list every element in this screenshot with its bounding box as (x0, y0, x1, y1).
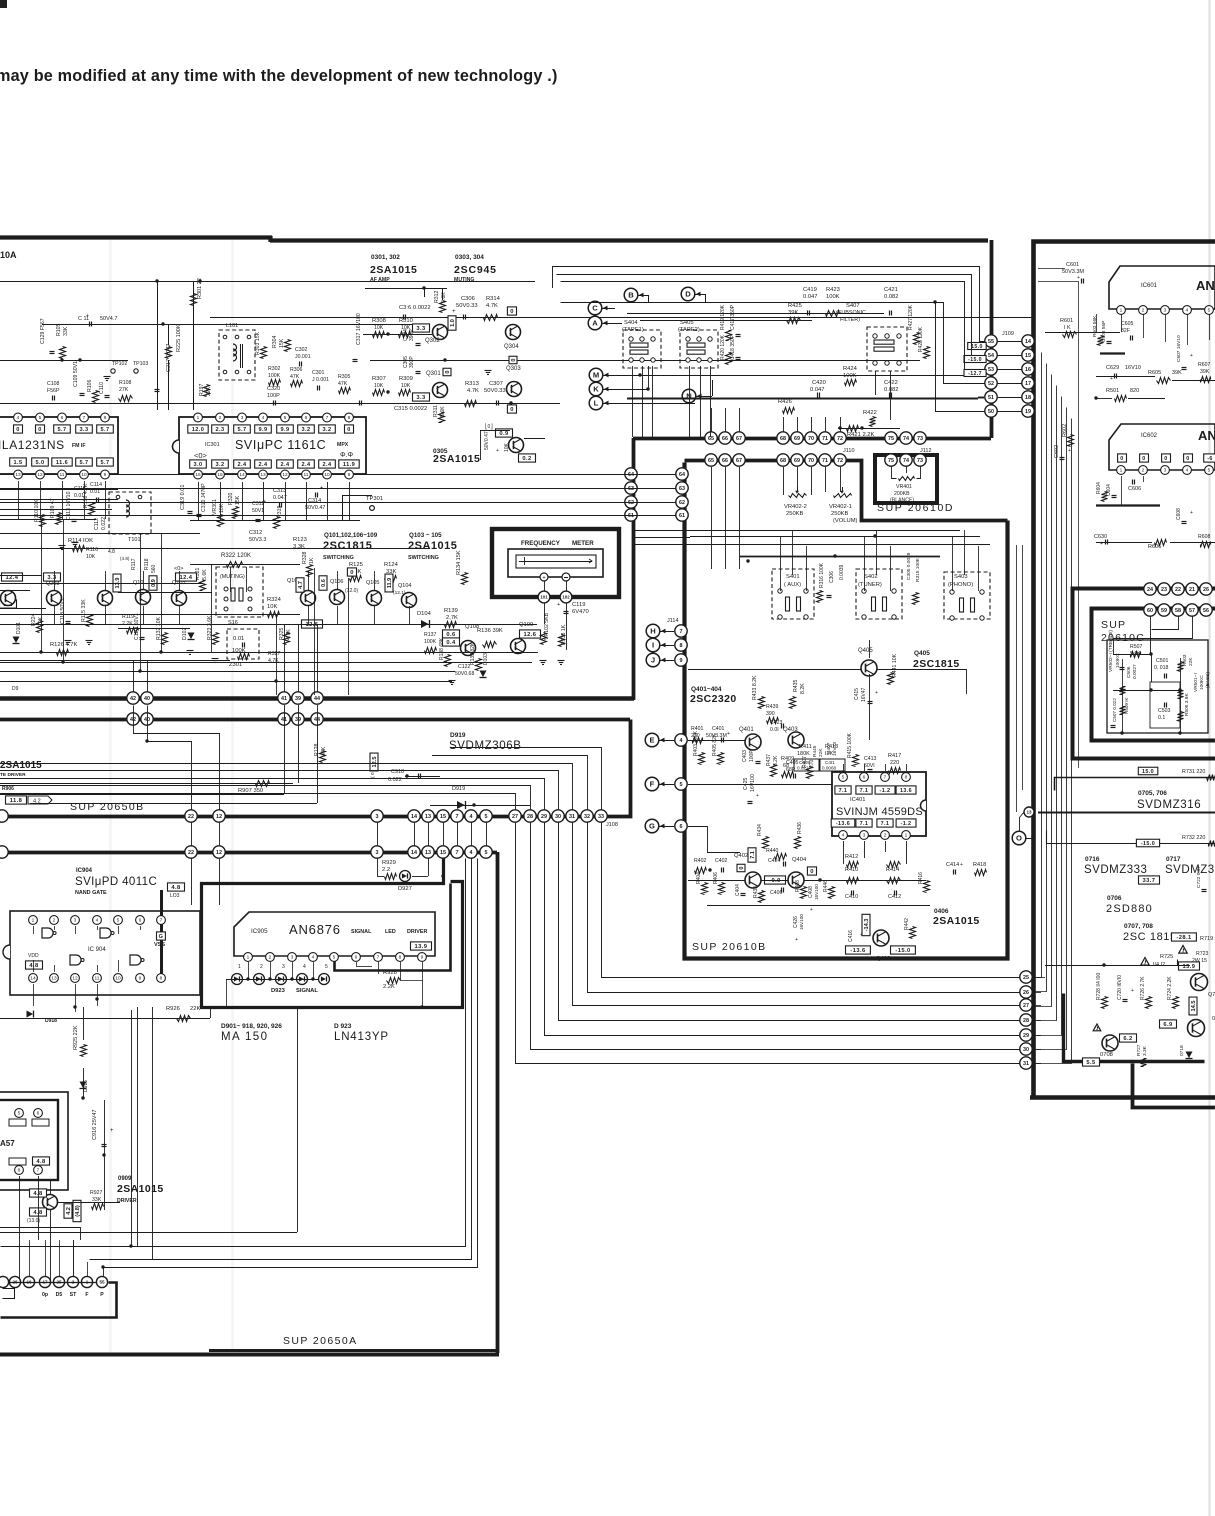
svg-text:1K: 1K (309, 557, 315, 564)
svg-text:I/4 I2: I/4 I2 (1153, 962, 1165, 968)
svg-text:R406: R406 (713, 872, 719, 884)
bottom connector circles (0, 1276, 9, 1287)
svg-text:+: + (810, 907, 813, 913)
svg-text:C403: C403 (742, 750, 748, 762)
svg-text:12: 12 (216, 850, 222, 856)
svg-text:39K: 39K (788, 310, 798, 316)
svg-text:R134 15K: R134 15K (456, 550, 462, 575)
svg-text:J: J (651, 656, 655, 665)
svg-text:R130 4.7K: R130 4.7K (83, 483, 89, 508)
svg-text:DRIVER: DRIVER (117, 1198, 137, 1204)
svg-text:R118: R118 (144, 558, 150, 570)
svg-text:+: + (875, 690, 878, 696)
svg-text:12.6: 12.6 (524, 632, 537, 638)
svg-text:4.8: 4.8 (171, 885, 181, 891)
svg-text:Q10: Q10 (133, 580, 143, 586)
svg-text:60: 60 (1147, 608, 1153, 614)
svg-text:47K: 47K (338, 381, 348, 387)
node circle B (624, 288, 638, 302)
svg-text:⎣0⎦: ⎣0⎦ (485, 423, 493, 430)
svg-text:50V1: 50V1 (252, 508, 264, 514)
transistor Q107 (301, 591, 316, 606)
svg-text:D919: D919 (452, 786, 465, 792)
svg-text:LN413YP: LN413YP (334, 1031, 389, 1043)
voltage boxes right row (296, 578, 304, 592)
svg-text:7: 7 (884, 775, 887, 781)
svg-text:D 923: D 923 (334, 1023, 352, 1030)
svg-text:0706: 0706 (1107, 895, 1122, 902)
svg-text:R427 120K: R427 120K (908, 304, 914, 330)
svg-text:50V0.47: 50V0.47 (305, 505, 326, 511)
svg-text:R304: R304 (272, 335, 278, 348)
svg-text:3: 3 (863, 833, 866, 839)
svg-text:44: 44 (314, 696, 320, 702)
transistor Q305 (509, 438, 524, 453)
svg-text:C606: C606 (1128, 486, 1141, 492)
svg-text:0.082: 0.082 (884, 387, 899, 393)
svg-text:LED: LED (385, 929, 396, 935)
svg-text:C720 I6VI0: C720 I6VI0 (1117, 975, 1123, 1000)
svg-text:4: 4 (303, 964, 306, 970)
svg-text:NAND GATE: NAND GATE (75, 890, 107, 896)
svg-text:C607 16V10: C607 16V10 (1176, 335, 1182, 362)
svg-text:C302: C302 (295, 347, 308, 353)
wires between 61-64 columns (0, 474, 676, 476)
svg-text:6: 6 (139, 918, 142, 924)
svg-text:<0>: <0> (194, 451, 208, 460)
svg-text:100P: 100P (749, 750, 755, 762)
svg-text:64: 64 (679, 472, 685, 478)
svg-text:Q401~404: Q401~404 (691, 686, 722, 693)
svg-text:3: 3 (291, 955, 294, 961)
voltage box -28.1 (1172, 933, 1197, 941)
svg-text:R408: R408 (795, 880, 801, 892)
top feed wires to J109 (553, 267, 985, 342)
svg-text:R725: R725 (1160, 954, 1173, 960)
svg-text:15.0: 15.0 (971, 344, 983, 350)
svg-text:C404: C404 (735, 884, 741, 896)
svg-text:S407: S407 (846, 303, 860, 309)
svg-text:R424: R424 (843, 366, 858, 372)
svg-text:R602: R602 (1062, 424, 1068, 437)
voltage box 12.6 (302, 620, 323, 628)
wires bus row2 to S401 (711, 467, 713, 569)
IC101 LA1231NS package (0, 417, 118, 474)
svg-text:+: + (320, 485, 323, 491)
svg-text:Φ.Φ: Φ.Φ (340, 452, 354, 459)
svg-text:R305: R305 (338, 374, 351, 380)
svg-text:R607: R607 (1198, 362, 1211, 368)
svg-text:53: 53 (988, 367, 994, 373)
svg-text:C417 350P: C417 350P (730, 304, 736, 330)
svg-text:68: 68 (780, 436, 786, 442)
svg-text:11: 11 (60, 472, 65, 478)
svg-text:0. 018: 0. 018 (1154, 665, 1169, 671)
svg-text:7.1: 7.1 (860, 788, 869, 794)
svg-text:R603 56K: R603 56K (1092, 315, 1098, 337)
svg-text:D918: D918 (45, 1018, 57, 1024)
svg-text:R732 2​20: R732 2​20 (1182, 835, 1205, 841)
svg-text:39K: 39K (1172, 370, 1182, 376)
J109 connector bold stem (990, 240, 994, 438)
svg-text:4: 4 (842, 833, 845, 839)
svg-text:7: 7 (377, 955, 380, 961)
svg-text:390P: 390P (409, 329, 415, 341)
svg-text:68: 68 (783, 763, 789, 769)
wire C11 rail (42, 324, 430, 326)
svg-text:R110 10K: R110 10K (34, 499, 40, 522)
svg-text:0.022: 0.022 (797, 766, 809, 771)
svg-text:5: 5 (485, 814, 488, 820)
svg-text:16V47: 16V47 (861, 687, 867, 702)
wire q row (0, 548, 430, 550)
bottom connector outline (1, 1283, 117, 1318)
svg-text:P: P (100, 1292, 104, 1298)
svg-text:C4I1: C4I1 (825, 760, 835, 765)
voltage box 15.0 right (1055, 778, 1215, 791)
svg-text:5.6K: 5.6K (202, 569, 208, 580)
svg-text:12: 12 (37, 472, 43, 478)
svg-text:+: + (557, 602, 560, 608)
svg-text:R423: R423 (826, 287, 840, 293)
svg-text:33K: 33K (63, 326, 69, 336)
muting switch dashed box (216, 567, 263, 617)
svg-text:55: 55 (988, 339, 994, 345)
svg-text:12: 12 (216, 814, 222, 820)
svg-text:R306: R306 (290, 367, 303, 373)
20610C inner board outline (1107, 640, 1208, 733)
svg-text:TP102: TP102 (112, 361, 127, 367)
svg-text:C306: C306 (829, 571, 835, 583)
svg-text:R320: R320 (228, 492, 234, 505)
svg-text:R403 100K: R403 100K (693, 730, 699, 756)
svg-text:SWITCHING: SWITCHING (408, 555, 439, 561)
svg-text:0708: 0708 (1100, 1052, 1113, 1058)
svg-text:5: 5 (1208, 468, 1211, 474)
wire node13 (1038, 812, 1215, 814)
svg-text:0.047: 0.047 (810, 387, 825, 393)
IC905 AN6876 package (234, 912, 435, 956)
voltage boxes Q406 (846, 946, 871, 954)
bus row2 junctions 65-67 (705, 454, 717, 466)
svg-text:R428 120K: R428 120K (918, 326, 924, 352)
svg-text:0.0068: 0.0068 (822, 766, 836, 771)
svg-text:R139: R139 (444, 608, 458, 614)
svg-text:26: 26 (1023, 990, 1029, 996)
svg-text:6: 6 (355, 955, 358, 961)
svg-text:H: H (650, 627, 655, 636)
svg-text:R419 120K: R419 120K (720, 304, 726, 330)
IC301 bottom pins (194, 470, 203, 479)
svg-text:31: 31 (569, 814, 575, 820)
svg-text:C601: C601 (1066, 262, 1079, 268)
transistor Q301 circle (433, 383, 448, 398)
svg-text:may be modified at any time wi: may be modified at any time with the dev… (0, 67, 558, 85)
svg-text:R412: R412 (845, 854, 858, 860)
svg-text:23: 23 (1161, 587, 1167, 593)
svg-text:5: 5 (39, 415, 42, 421)
svg-text:R404: R404 (696, 872, 702, 884)
left edge boxes (2, 573, 23, 581)
svg-text:3: 3 (282, 964, 285, 970)
svg-text:22: 22 (188, 814, 194, 820)
svg-text:S402: S402 (864, 574, 878, 580)
svg-text:8: 8 (104, 415, 107, 421)
svg-text:59: 59 (1161, 608, 1167, 614)
svg-text:0.0039: 0.0039 (839, 564, 845, 580)
svg-text:D9: D9 (12, 686, 19, 692)
svg-text:A: A (592, 319, 598, 328)
ground mark Q30x (485, 370, 492, 372)
svg-text:C320: C320 (267, 386, 280, 392)
svg-text:SIGNAL: SIGNAL (296, 988, 318, 994)
svg-text:R312: R312 (434, 290, 440, 303)
svg-text:16: 16 (195, 472, 201, 478)
svg-text:8: 8 (905, 775, 908, 781)
svg-text:17: 17 (1025, 381, 1031, 387)
svg-text:R106: R106 (87, 379, 93, 392)
wire af rail (210, 317, 1032, 319)
corridor verticals (1016, 545, 1018, 812)
svg-text:0718: 0718 (1179, 1045, 1185, 1056)
bottom long wires to SUP20650A (1, 859, 466, 1247)
svg-text:1: 1 (247, 955, 250, 961)
svg-text:2SC2320: 2SC2320 (690, 693, 737, 705)
SUP20610C board outline inner (1092, 609, 1215, 741)
frequency meter bold box (492, 529, 619, 597)
svg-text:40: 40 (144, 717, 150, 723)
svg-text:R316 100K: R316 100K (819, 562, 825, 588)
vertical feeders under buses (191, 822, 193, 846)
svg-text:3: 3 (376, 814, 379, 820)
VR401 pot in SUP20610D (885, 454, 897, 466)
transistor Q302 (433, 325, 448, 340)
svg-text:7: 7 (680, 629, 683, 635)
AN6876 output bold trace (335, 884, 451, 971)
svg-text:C503: C503 (1158, 708, 1171, 714)
svg-text:R311: R311 (433, 405, 439, 417)
svg-text:D103: D103 (483, 653, 489, 665)
svg-text:8: 8 (348, 415, 351, 421)
svg-text:0.1: 0.1 (1158, 715, 1165, 721)
wire row y530 (0, 533, 200, 535)
svg-text:12.0: 12.0 (192, 427, 205, 433)
transformer L101 dashed box (219, 330, 255, 380)
svg-text:57: 57 (1189, 608, 1195, 614)
svg-text:-1.2: -1.2 (880, 788, 891, 794)
svg-text:Q109: Q109 (519, 622, 533, 628)
right block internal wires (1045, 965, 1190, 967)
svg-text:R303 15K: R303 15K (255, 331, 261, 355)
svg-text:0.4: 0.4 (446, 640, 456, 646)
IC902 partial package (0, 1092, 68, 1190)
svg-text:SUP 20610B: SUP 20610B (692, 941, 767, 953)
svg-text:14: 14 (411, 814, 417, 820)
svg-text:C415: C415 (854, 688, 860, 700)
svg-text:10: 10 (115, 976, 121, 982)
svg-text:1: 1 (197, 415, 200, 421)
svg-text:12.6: 12.6 (306, 622, 319, 628)
right block border (1034, 242, 1215, 1096)
bus junctions 41 39 44 row1 (278, 692, 290, 704)
svg-text:TP301: TP301 (366, 496, 383, 502)
svg-text:220: 220 (890, 760, 899, 766)
svg-text:SVDMZ306B: SVDMZ306B (449, 740, 522, 752)
svg-text:R105: R105 (56, 323, 62, 336)
svg-text:SIGNAL: SIGNAL (351, 929, 372, 935)
svg-text:44: 44 (314, 717, 320, 723)
svg-text:10: 10 (324, 472, 330, 478)
wire row 628 (118, 628, 190, 630)
svg-text:(PHONO): (PHONO) (948, 582, 973, 588)
svg-text:R115 33K: R115 33K (81, 599, 87, 622)
svg-text:0: 0 (350, 570, 354, 576)
svg-text:4: 4 (470, 850, 473, 856)
IC301 uPC1161C package (179, 417, 366, 474)
riser from bottom wires (131, 1010, 133, 1246)
svg-text:32: 32 (584, 814, 590, 820)
svg-text:Q106: Q106 (330, 579, 343, 585)
switch block top wires (627, 313, 884, 315)
wire base rail Q302 (363, 334, 432, 336)
svg-text:R322 120K: R322 120K (221, 553, 251, 559)
svg-text:+: + (1190, 353, 1193, 359)
svg-text:75: 75 (888, 436, 894, 442)
svg-text:J0.001: J0.001 (295, 354, 311, 360)
transistor Q102 (136, 590, 151, 605)
IC904 VSS bold trace (160, 890, 163, 980)
svg-text:R446: R446 (823, 880, 829, 892)
svg-text:FREQUENCY: FREQUENCY (521, 540, 561, 547)
svg-text:4: 4 (1186, 308, 1189, 314)
svg-text:2SA1015: 2SA1015 (933, 915, 980, 927)
svg-text:0301, 302: 0301, 302 (371, 254, 400, 261)
svg-text:-14.3: -14.3 (864, 919, 870, 932)
voltage box 13.9 right (1179, 962, 1200, 970)
bus riser wires 42 40 (134, 706, 220, 811)
svg-text:54: 54 (988, 353, 994, 359)
svg-text:69: 69 (794, 458, 800, 464)
bus3 junctions mid (371, 810, 383, 822)
svg-text:C113 16V10: C113 16V10 (66, 491, 72, 520)
svg-text:C423: C423 (770, 720, 783, 726)
svg-text:67: 67 (736, 458, 742, 464)
svg-text:+: + (795, 937, 798, 943)
J109 mate circles 14-19 (1022, 335, 1034, 347)
svg-text:+: + (1077, 275, 1080, 281)
IC602 voltage boxes (1118, 454, 1127, 462)
IC601 pins (1117, 306, 1126, 315)
svg-text:2.2K: 2.2K (383, 984, 395, 990)
svg-text:D5: D5 (56, 1292, 63, 1298)
svg-text:102: 102 (562, 595, 570, 600)
svg-text:10K: 10K (86, 554, 96, 560)
svg-text:560: 560 (151, 564, 157, 573)
bus junctions 42 40 row1 (127, 692, 139, 704)
IC904 internal wires (33, 926, 35, 934)
junction column 64-61 left (625, 468, 637, 480)
svg-text:50V3.3: 50V3.3 (249, 537, 266, 543)
svg-text:390P: 390P (409, 356, 415, 368)
voltage box 0 vertical Q304 (509, 356, 517, 363)
svg-text:8: 8 (160, 976, 163, 982)
svg-text:0: 0 (1120, 456, 1123, 462)
switch riser wires (780, 537, 782, 591)
svg-text:R137: R137 (424, 632, 437, 638)
svg-text:J108: J108 (606, 822, 618, 828)
tuner interior rails (0, 583, 202, 585)
voltage box 0 q404 (807, 867, 816, 875)
tuner block right edge (632, 438, 636, 700)
wires output row (688, 880, 745, 882)
tuner long verticals (41, 519, 43, 652)
svg-text:9: 9 (421, 955, 424, 961)
svg-text:39: 39 (295, 717, 301, 723)
svg-text:C420: C420 (812, 380, 826, 386)
svg-text:15: 15 (1025, 353, 1031, 359)
svg-text:R434: R434 (757, 824, 763, 836)
svg-text:2.4: 2.4 (281, 462, 290, 468)
wire row 624 (0, 624, 537, 626)
svg-text:C918: C918 (391, 769, 404, 775)
node circle M (589, 368, 603, 382)
svg-text:ST: ST (70, 1292, 77, 1298)
svg-text:R426: R426 (778, 399, 792, 405)
voltage box 0 at R314 (507, 307, 516, 315)
svg-text:VDD: VDD (28, 953, 39, 959)
svg-text:2.4: 2.4 (302, 462, 311, 468)
diode D918 left (27, 1011, 34, 1018)
svg-text:4.8: 4.8 (29, 963, 39, 969)
svg-text:0303, 304: 0303, 304 (455, 254, 484, 261)
svg-text:R442: R442 (904, 918, 910, 930)
svg-text:D: D (685, 290, 691, 299)
svg-text:7: 7 (456, 850, 459, 856)
svg-text:2SC945: 2SC945 (454, 264, 497, 276)
svg-text:62: 62 (679, 500, 685, 506)
svg-text:C109 50V1: C109 50V1 (73, 361, 79, 387)
svg-text:16V100: 16V100 (814, 884, 819, 900)
svg-text:R601: R601 (1060, 318, 1073, 324)
svg-text:0: 0 (511, 358, 517, 361)
svg-text:C506: C506 (1126, 666, 1132, 678)
svg-text:Q401: Q401 (739, 727, 754, 733)
voltage box 33.7 (1139, 876, 1160, 884)
wire top rail (0, 281, 535, 283)
transistor Q105 (367, 591, 382, 606)
node circle A (588, 316, 602, 330)
connector nodes E F G (645, 733, 659, 747)
svg-text:42: 42 (130, 696, 136, 702)
svg-text:R225 100K: R225 100K (176, 324, 182, 352)
svg-text:13: 13 (15, 472, 21, 478)
svg-text:42: 42 (130, 717, 136, 723)
svg-text:C629: C629 (1106, 365, 1119, 371)
svg-text:27: 27 (1023, 1003, 1029, 1009)
svg-text:12: 12 (72, 976, 78, 982)
LED wiring (226, 979, 318, 981)
svg-text:10K: 10K (504, 442, 510, 452)
svg-text:74: 74 (903, 436, 909, 442)
svg-text:G: G (649, 822, 655, 831)
svg-text:SUP 20650A: SUP 20650A (283, 1335, 358, 1347)
svg-text:47K: 47K (290, 374, 300, 380)
svg-text:75: 75 (888, 458, 894, 464)
svg-text:10A: 10A (0, 250, 17, 260)
svg-text:C604: C604 (1106, 484, 1112, 496)
svg-text:71: 71 (822, 458, 828, 464)
tuner block bottom border (0, 696, 634, 700)
